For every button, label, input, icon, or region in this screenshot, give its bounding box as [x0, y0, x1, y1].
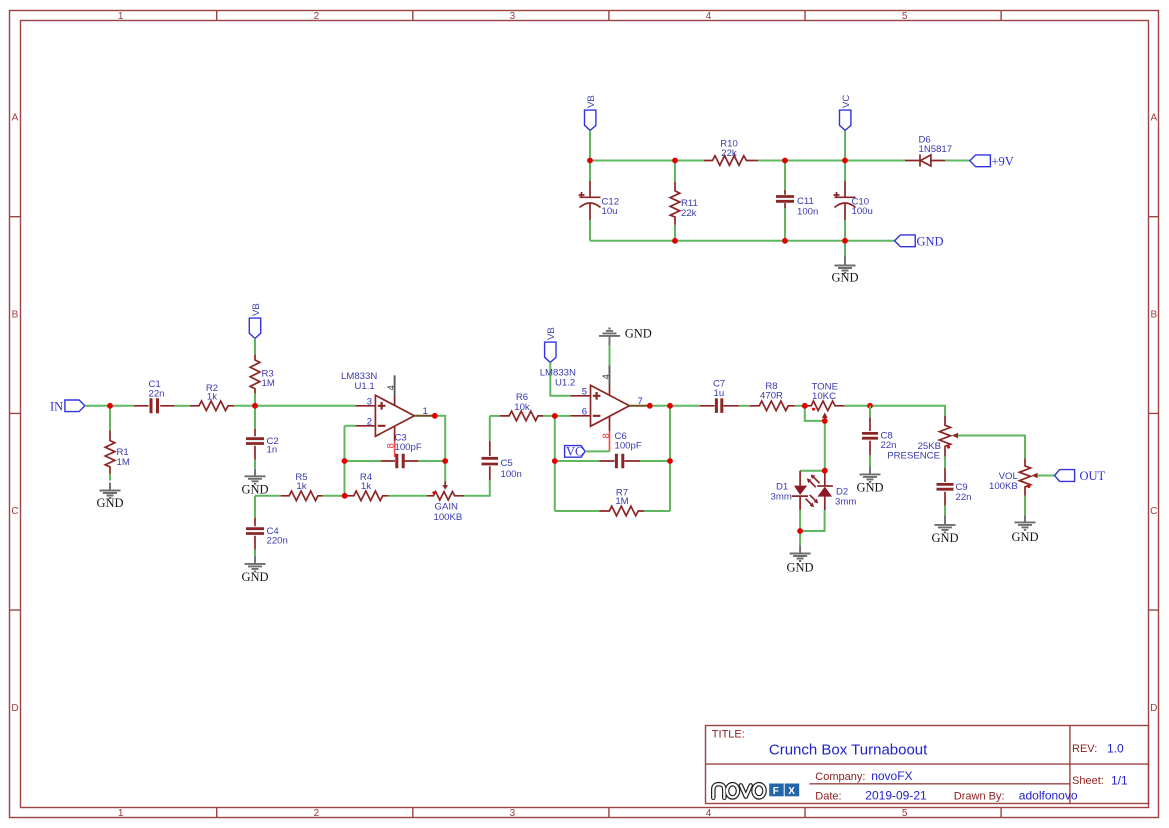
potentiometer PRESENCE 25KB — [887, 416, 959, 462]
junction dots stage 1 — [107, 403, 448, 499]
wire op1 output to feedback corner — [434, 416, 445, 481]
resistor R2 — [190, 383, 234, 411]
wire TONE to presence corner — [845, 406, 945, 416]
net flag VB (R3) — [249, 303, 261, 338]
svg-text:PRESENCE: PRESENCE — [887, 451, 940, 462]
ground symbol (diodes) — [786, 531, 813, 575]
svg-text:4: 4 — [706, 11, 712, 22]
svg-text:100KB: 100KB — [989, 481, 1018, 492]
svg-text:1M: 1M — [117, 457, 130, 468]
svg-text:2: 2 — [367, 416, 372, 427]
wire R3 to node — [254, 394, 256, 406]
svg-text:10k: 10k — [514, 402, 530, 413]
resistor R7 — [600, 487, 645, 516]
wire C10 branch — [844, 161, 846, 241]
wire GAIN to C5 — [464, 480, 490, 495]
potentiometer GAIN 100KB — [427, 481, 464, 523]
svg-text:VC: VC — [841, 95, 852, 108]
svg-text:REV:: REV: — [1072, 743, 1097, 755]
svg-text:2: 2 — [314, 808, 320, 819]
wire op2 output rail — [649, 405, 699, 407]
potentiometer TONE 10KC — [805, 382, 845, 421]
potentiometer VOL 100KB — [989, 458, 1038, 496]
capacitor C7 — [700, 379, 739, 413]
svg-text:U1.1: U1.1 — [355, 381, 375, 392]
svg-text:A: A — [12, 113, 19, 124]
wire bottom power rail — [590, 240, 895, 242]
svg-text:C: C — [11, 506, 18, 517]
svg-text:470R: 470R — [760, 391, 783, 402]
net flag +9V — [970, 155, 1014, 169]
svg-text:VB: VB — [251, 303, 262, 316]
svg-text:2: 2 — [314, 11, 320, 22]
svg-text:5: 5 — [902, 11, 908, 22]
svg-text:10KC: 10KC — [812, 391, 836, 402]
wire VOL wiper to OUT — [1038, 475, 1055, 477]
net label VC (U1.2 pin 8) — [565, 444, 610, 458]
capacitor C10 — [834, 181, 873, 220]
svg-text:C: C — [1150, 506, 1157, 517]
svg-text:B: B — [12, 310, 19, 321]
resistor R3 — [250, 354, 275, 393]
wire diodes bottom — [800, 510, 825, 531]
svg-text:10u: 10u — [602, 206, 618, 217]
svg-text:22k: 22k — [721, 148, 737, 159]
svg-text:GND: GND — [917, 235, 944, 249]
title block texts — [712, 729, 1128, 803]
resistor R8 — [750, 381, 795, 411]
wire C5 to R6 — [490, 415, 500, 417]
novoFX logo — [713, 784, 799, 799]
wire GND to pin 4 — [609, 346, 611, 366]
svg-text:Sheet:: Sheet: — [1072, 775, 1104, 787]
diode D6 1N5817 — [905, 135, 952, 167]
capacitor C8 — [862, 418, 897, 456]
capacitor C11 — [776, 190, 818, 218]
ground symbol (C4) — [241, 557, 268, 585]
svg-text:Company:: Company: — [815, 771, 865, 783]
title block frame — [706, 726, 1149, 804]
svg-text:100KB: 100KB — [434, 512, 463, 523]
svg-text:6: 6 — [582, 406, 587, 417]
svg-text:4: 4 — [601, 374, 612, 379]
svg-text:adolfonovo: adolfonovo — [1019, 789, 1078, 803]
svg-text:1k: 1k — [361, 481, 371, 492]
net flag OUT — [1055, 469, 1106, 483]
wire VB to pin 5 — [550, 362, 570, 395]
svg-text:8: 8 — [601, 433, 612, 438]
ground symbol (C9) — [931, 516, 958, 545]
capacitor C3 — [381, 433, 422, 469]
svg-text:5: 5 — [582, 386, 587, 397]
op-amp U1.1 LM833N — [341, 371, 434, 457]
wire R11 branch — [674, 161, 676, 241]
op-amp U1.2 pin 8 — [601, 416, 612, 451]
svg-text:1N5817: 1N5817 — [919, 144, 953, 155]
svg-text:GND: GND — [831, 271, 858, 285]
wire R6 to op-amp pin 6 — [543, 415, 570, 417]
wire C2 branch — [254, 406, 256, 469]
wire C3 feedback rail — [345, 460, 446, 462]
svg-text:4: 4 — [386, 385, 397, 390]
svg-text:100pF: 100pF — [615, 440, 642, 451]
resistor R5 — [281, 472, 323, 501]
svg-text:GAIN: GAIN — [435, 502, 459, 513]
svg-text:5: 5 — [902, 808, 908, 819]
junction dots stage 2 — [552, 403, 873, 464]
junction dots power section — [587, 158, 848, 244]
svg-text:1k: 1k — [207, 392, 217, 403]
svg-text:22n: 22n — [956, 492, 972, 503]
svg-text:1n: 1n — [267, 445, 278, 456]
svg-text:U1.2: U1.2 — [555, 377, 575, 388]
svg-text:7: 7 — [638, 396, 643, 407]
ground symbol (C2) — [241, 469, 268, 497]
wire VOL to GND — [1024, 496, 1026, 516]
wire R8 to TONE — [795, 405, 805, 407]
svg-text:D: D — [11, 703, 18, 714]
svg-text:VC: VC — [566, 444, 583, 458]
svg-text:A: A — [1150, 113, 1157, 124]
junction dots clipping section — [797, 468, 828, 534]
svg-text:1: 1 — [118, 11, 124, 22]
wire C1 to R2 — [175, 405, 191, 407]
capacitor C5 — [482, 416, 522, 481]
svg-text:1k: 1k — [296, 481, 306, 492]
capacitor C6 — [600, 431, 642, 469]
wire C8 branch — [869, 406, 871, 466]
capacitor C4 — [246, 518, 288, 550]
capacitor C9 — [937, 468, 972, 506]
net flag VC (power) — [840, 95, 853, 131]
svg-text:OUT: OUT — [1080, 469, 1106, 483]
svg-text:F: F — [773, 786, 779, 797]
wire C7 to R8 — [739, 405, 750, 407]
resistor R6 — [500, 392, 543, 421]
svg-text:100n: 100n — [501, 469, 522, 480]
resistor R11 — [670, 182, 698, 225]
svg-text:4: 4 — [706, 808, 712, 819]
svg-text:100u: 100u — [852, 206, 873, 217]
svg-text:1.0: 1.0 — [1107, 742, 1124, 756]
svg-text:Crunch Box Turnaboout: Crunch Box Turnaboout — [769, 742, 928, 759]
svg-text:VB: VB — [586, 95, 597, 108]
wire PRESENCE wiper to VOL — [958, 436, 1025, 459]
svg-text:1M: 1M — [615, 496, 628, 507]
wire top power rail — [590, 160, 970, 162]
wire IN to C1 — [85, 405, 134, 407]
svg-text:GND: GND — [931, 531, 958, 545]
net flag VB (power) — [585, 95, 598, 130]
svg-text:22n: 22n — [149, 389, 165, 400]
svg-text:D: D — [1150, 703, 1157, 714]
ground symbol (VOL) — [1011, 516, 1038, 545]
svg-text:3mm: 3mm — [835, 497, 856, 508]
wire C11 branch — [784, 161, 786, 241]
svg-text:3: 3 — [510, 808, 516, 819]
svg-text:220n: 220n — [267, 536, 288, 547]
ground symbol (U1.2 pin 4, inverted) — [599, 327, 652, 346]
LED arrows D1 — [807, 474, 820, 487]
capacitor C1 — [134, 379, 175, 413]
net flag IN — [50, 400, 85, 414]
svg-text:22k: 22k — [681, 208, 697, 219]
ground symbol (power rail) — [831, 241, 858, 285]
svg-text:TITLE:: TITLE: — [712, 729, 745, 741]
svg-text:GND: GND — [625, 327, 652, 341]
wire pin6 node vertical — [554, 416, 556, 511]
svg-text:IN: IN — [50, 400, 63, 414]
svg-text:Drawn By:: Drawn By: — [954, 791, 1005, 803]
svg-text:1/1: 1/1 — [1111, 774, 1128, 788]
svg-text:GND: GND — [241, 570, 268, 584]
wire C4 branch — [254, 496, 256, 557]
svg-text:100pF: 100pF — [395, 442, 422, 453]
net flag GND (power rail) — [895, 235, 944, 249]
resistor R10 — [704, 139, 758, 166]
svg-text:GND: GND — [96, 496, 123, 510]
svg-text:GND: GND — [856, 480, 883, 494]
wire C6 feedback rail — [555, 460, 670, 462]
op-amp U1.2 LM833N — [540, 367, 650, 426]
wire C12 branch — [589, 161, 591, 241]
svg-text:C11: C11 — [797, 196, 814, 207]
wire R5 R4 row — [255, 495, 427, 497]
op-amp U1.2 pin 4 — [601, 365, 612, 395]
svg-text:3mm: 3mm — [771, 492, 792, 503]
wire VC stem — [844, 131, 846, 161]
svg-text:X: X — [788, 786, 795, 797]
svg-text:1M: 1M — [262, 378, 275, 389]
wire R2 to op-amp pin 3 — [234, 405, 355, 407]
wire clipping node — [800, 470, 825, 472]
resistor R1 — [105, 430, 130, 474]
svg-text:novoFX: novoFX — [871, 769, 912, 783]
svg-text:B: B — [1150, 310, 1157, 321]
svg-text:GND: GND — [1011, 530, 1038, 544]
svg-text:1u: 1u — [714, 388, 725, 399]
svg-text:3: 3 — [510, 11, 516, 22]
wire R1 branch — [109, 406, 111, 481]
svg-text:22n: 22n — [881, 440, 897, 451]
wire op1 inverting input — [345, 426, 356, 496]
svg-text:GND: GND — [786, 561, 813, 575]
diode D2 3mm LED — [817, 471, 856, 510]
capacitor C2 — [246, 429, 279, 460]
svg-text:1: 1 — [118, 808, 124, 819]
svg-text:VB: VB — [546, 327, 557, 340]
svg-text:100n: 100n — [797, 207, 818, 218]
ground symbol (C8) — [856, 466, 883, 494]
svg-text:GND: GND — [241, 483, 268, 497]
svg-text:2019-09-21: 2019-09-21 — [865, 789, 927, 803]
LED arrows D2 — [806, 495, 819, 507]
wire VB to R3 — [254, 338, 256, 354]
svg-text:+9V: +9V — [992, 155, 1014, 169]
svg-text:3: 3 — [367, 396, 372, 407]
wire VB stem — [589, 131, 591, 161]
capacitor C12 — [579, 181, 620, 220]
diode D1 3mm LED — [771, 471, 809, 511]
svg-text:C5: C5 — [501, 458, 513, 469]
svg-text:Date:: Date: — [815, 791, 841, 803]
wire TONE wiper tie — [805, 406, 825, 471]
wire PRESENCE to C9 — [944, 457, 946, 516]
svg-text:1: 1 — [423, 406, 428, 417]
wire R7 feedback rail — [555, 406, 670, 511]
net flag VB (U1.2) — [545, 327, 558, 362]
ground symbol (R1) — [96, 483, 123, 511]
resistor R4 — [345, 472, 389, 501]
